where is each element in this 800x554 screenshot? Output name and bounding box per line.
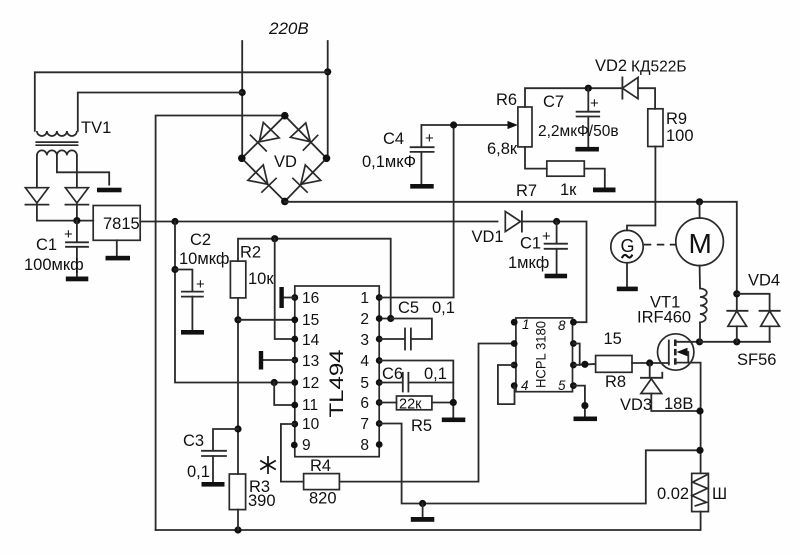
IC U2 HCPL 3180: [516, 318, 573, 392]
svg-text:220В: 220В: [268, 19, 309, 38]
resistor R2: [230, 261, 245, 298]
diode rectifier right: [65, 188, 88, 221]
wire bottom rail: [156, 529, 700, 531]
wire mains right vertical: [327, 41, 329, 158]
svg-text:0,1мкФ: 0,1мкФ: [362, 153, 416, 171]
ground G: [626, 263, 628, 287]
wire R2 top rail to pin2: [238, 239, 391, 319]
diode VD4 right: [737, 294, 780, 342]
node source branch: [696, 447, 703, 454]
wire diamond edges: [242, 116, 327, 202]
node HCPL pin7: [570, 340, 577, 347]
wire pin15: [238, 319, 295, 321]
ground HCPL pin5: [574, 417, 598, 422]
node bridge top: [281, 112, 289, 120]
svg-text:16: 16: [302, 290, 319, 307]
svg-text:VD: VD: [274, 153, 297, 171]
label asterisk: [260, 456, 276, 474]
node TL494 pin3: [376, 336, 383, 343]
svg-text:10: 10: [302, 416, 320, 433]
svg-text:TL494: TL494: [326, 349, 348, 417]
svg-text:13: 13: [302, 353, 319, 370]
node TL494 pin10: [291, 421, 298, 428]
wire secondary left terminal: [36, 155, 38, 187]
node TL494 pin12: [291, 379, 298, 386]
svg-text:C5: C5: [398, 299, 419, 317]
svg-text:R7: R7: [516, 182, 537, 200]
svg-text:VD2: VD2: [595, 57, 627, 75]
capacitor C1 100uF: [64, 221, 88, 282]
node TL494 pin14: [291, 336, 298, 343]
diode VD2: [622, 77, 655, 108]
svg-text:1мкф: 1мкф: [508, 254, 549, 272]
node HCPL pin8: [570, 319, 577, 326]
svg-text:HCPL 3180: HCPL 3180: [533, 321, 549, 388]
common bar pin13: [261, 351, 295, 370]
resistor R4: [304, 474, 340, 490]
node 22k right: [450, 399, 457, 406]
svg-text:9: 9: [302, 437, 311, 454]
capacitor C5: [379, 319, 432, 350]
node TL494 pin1: [376, 294, 383, 301]
wire VD1 cathode rail: [522, 222, 587, 323]
node TL494 pin7: [376, 420, 383, 427]
ground center tap: [97, 188, 122, 193]
wire R3 bottom: [237, 510, 239, 530]
node HCPL pin4: [511, 382, 518, 389]
node TL494 pin9: [291, 442, 298, 449]
svg-text:+: +: [425, 130, 434, 147]
node C7 top: [585, 85, 592, 92]
svg-text:КД522Б: КД522Б: [631, 59, 687, 76]
common bar pin16: [282, 287, 295, 308]
wire inductor to drain: [699, 322, 701, 341]
svg-text:11: 11: [302, 397, 318, 414]
potentiometer R6: [518, 107, 532, 147]
svg-text:R2: R2: [240, 244, 261, 262]
node C1 top: [553, 218, 560, 225]
node pin14 branch: [271, 235, 278, 242]
node TL494 pin11: [291, 402, 298, 409]
wire 7815 output rail: [140, 221, 497, 223]
wire HCPL pin7 jog to pin6: [573, 344, 579, 366]
svg-text:+: +: [196, 276, 205, 293]
ground 7815: [116, 240, 118, 256]
diode VD1: [505, 211, 522, 231]
diode bridge top-right: [303, 135, 318, 151]
wire HCPL pin5 ground: [573, 386, 585, 417]
node pin2 junction: [387, 315, 394, 322]
svg-text:SF56: SF56: [737, 351, 776, 369]
node motor top rail: [696, 198, 703, 205]
svg-text:R5: R5: [411, 417, 432, 435]
svg-text:C6: C6: [382, 365, 403, 383]
capacitor C6: [379, 373, 453, 392]
svg-text:100мкф: 100мкф: [24, 256, 84, 274]
wire dashed G-M coupling: [644, 244, 676, 246]
capacitor C1 1uF: [542, 222, 567, 279]
wire TV1 primary second: [78, 93, 242, 131]
wire R4 to HCPL pin2: [339, 344, 514, 482]
generator G: [611, 230, 643, 262]
node R8 left: [581, 361, 588, 368]
resistor R8: [596, 356, 632, 373]
node R3 bottom: [234, 526, 241, 533]
svg-text:10мкф: 10мкф: [179, 250, 230, 268]
svg-text:0,1: 0,1: [424, 365, 447, 383]
wire motor top: [699, 202, 701, 218]
svg-text:3: 3: [360, 332, 369, 349]
svg-text:5: 5: [558, 378, 566, 393]
wire pin4 to ground riser: [379, 361, 453, 418]
svg-text:15: 15: [604, 330, 622, 348]
svg-text:4: 4: [521, 378, 529, 393]
node pin12 jog: [271, 379, 278, 386]
svg-text:7: 7: [360, 416, 369, 433]
transistor VT1 IRF460: [658, 334, 701, 473]
capacitor C2: [175, 270, 205, 335]
node TL494 pin8: [376, 441, 383, 448]
svg-text:C4: C4: [383, 130, 404, 148]
wire pin7 ground rail: [379, 424, 700, 504]
svg-text:390: 390: [248, 492, 276, 510]
wire secondary right terminal: [76, 155, 78, 187]
wire R7 right ground: [584, 169, 605, 188]
wire pin1 to R6 wiper riser: [379, 125, 453, 298]
svg-text:18В: 18В: [664, 395, 693, 413]
node TL494 pin6: [376, 399, 383, 406]
wire HCPL pin3 to pin4 loop: [498, 365, 515, 404]
wire pin14 riser: [275, 239, 295, 339]
capacitor C4: [410, 125, 434, 189]
svg-text:С1: С1: [36, 236, 57, 254]
svg-text:2: 2: [360, 311, 369, 328]
svg-text:TV1: TV1: [81, 119, 111, 137]
svg-text:R4: R4: [310, 457, 331, 475]
bridge rectifier VD: [238, 112, 330, 205]
IC U1 TL494: [295, 286, 379, 457]
svg-text:15: 15: [302, 312, 319, 329]
svg-text:1: 1: [360, 290, 369, 307]
svg-text:VD1: VD1: [472, 228, 504, 246]
node HCPL pin2: [511, 340, 518, 347]
node mains left: [239, 89, 246, 96]
svg-text:+: +: [64, 226, 73, 243]
node R2-pin15: [234, 316, 241, 323]
node diode2 output: [73, 217, 80, 224]
svg-text:C2: C2: [190, 231, 211, 249]
node wiper junction: [450, 121, 457, 128]
diode bridge bottom-left: [261, 178, 276, 193]
regulator 7815: [93, 206, 140, 241]
diode bridge top-left: [250, 135, 267, 152]
pin numbers TL494 right: [360, 290, 369, 454]
svg-text:14: 14: [302, 332, 320, 349]
svg-text:C3: C3: [183, 432, 204, 450]
diode VD4 left: [727, 294, 747, 342]
wire motor to inductor: [699, 266, 701, 289]
wire rectifier output to 7815: [37, 220, 93, 222]
svg-text:С1: С1: [520, 235, 541, 253]
wire pin11 jog: [274, 383, 295, 406]
wire mains left vertical: [241, 41, 243, 158]
node VD4 top: [733, 290, 740, 297]
resistor R5 22k: [379, 396, 453, 413]
node mains right: [324, 68, 331, 75]
ground under 22k: [442, 418, 466, 423]
wire bridge top vertex to left border: [156, 116, 285, 531]
wire drain rail to VD4: [700, 341, 771, 343]
wire R6 bottom to R7: [525, 147, 547, 169]
wire R6 top: [525, 88, 622, 107]
svg-text:R8: R8: [605, 373, 626, 391]
node TL494 pin13: [291, 357, 298, 364]
wire secondary center tap: [57, 155, 109, 184]
svg-text:R9: R9: [666, 110, 687, 128]
zener VD3: [641, 363, 700, 411]
wire HCPL pin6 to R8: [573, 364, 595, 365]
svg-text:1к: 1к: [560, 181, 577, 199]
node pin5 ground: [581, 402, 588, 409]
wire TV1 primary top: [35, 72, 328, 131]
svg-text:R6: R6: [496, 91, 517, 109]
node ground rail: [419, 500, 426, 507]
shunt resistor: [692, 473, 709, 530]
svg-text:2,2мкФ/50в: 2,2мкФ/50в: [538, 123, 619, 140]
ground rail symbol: [422, 504, 424, 518]
resistor R3: [229, 474, 245, 510]
svg-text:VD3: VD3: [620, 396, 652, 414]
svg-text:6,8к: 6,8к: [487, 140, 518, 158]
node TL494 pin5: [376, 379, 383, 386]
ground R7: [593, 188, 616, 193]
motor M: [676, 218, 724, 266]
wire R2 bottom: [237, 298, 239, 474]
node bridge right: [323, 155, 331, 163]
resistor R9: [648, 109, 663, 147]
svg-text:100: 100: [666, 127, 694, 145]
svg-text:4: 4: [360, 353, 369, 370]
svg-text:1: 1: [522, 317, 530, 332]
svg-text:5: 5: [360, 375, 369, 392]
pin numbers TL494 left: [302, 290, 320, 454]
pin labels HCPL: [521, 317, 566, 393]
node HCPL pin6: [570, 362, 577, 369]
wire C4 wiper line: [421, 124, 508, 126]
svg-text:IRF460: IRF460: [637, 309, 691, 327]
svg-text:22к: 22к: [399, 397, 422, 413]
svg-text:0.02: 0.02: [657, 485, 689, 503]
wire motor rail from bridge: [285, 202, 737, 294]
diode bridge bottom-right: [292, 178, 307, 193]
svg-text:8: 8: [558, 318, 566, 333]
transformer TV1: [35, 131, 78, 155]
wire R8 to gate: [632, 362, 669, 364]
svg-text:6: 6: [360, 395, 369, 412]
node HCPL pin3: [511, 362, 518, 369]
wire TL494 vcc branch x175: [175, 222, 295, 383]
svg-text:G: G: [621, 236, 635, 256]
svg-text:VD4: VD4: [748, 272, 780, 290]
resistor R7: [547, 161, 585, 176]
node TL494 pin16: [291, 294, 298, 301]
svg-text:+: +: [590, 95, 599, 112]
inductor motor winding: [700, 289, 707, 323]
node bridge left: [238, 155, 246, 163]
node rail x175: [171, 218, 178, 225]
node TL494 pin4: [376, 357, 383, 364]
node C2 tap: [171, 266, 178, 273]
diode rectifier left: [25, 188, 48, 221]
node source VD3: [696, 407, 703, 414]
capacitor C3: [202, 429, 239, 487]
node HCPL pin5: [570, 382, 577, 389]
svg-text:0,1: 0,1: [187, 463, 210, 481]
svg-text:C7: C7: [543, 93, 564, 111]
node C3 tap: [234, 425, 241, 432]
node VD4 left bottom: [733, 338, 740, 345]
node gate VD3: [646, 359, 653, 366]
node bridge bottom: [281, 198, 289, 206]
capacitor C7: [575, 88, 599, 151]
wire pin10 to R4: [281, 424, 304, 482]
node TL494 pin15: [291, 316, 298, 323]
svg-text:+: +: [542, 228, 551, 245]
svg-text:M: M: [689, 228, 712, 259]
svg-text:7815: 7815: [103, 215, 140, 233]
svg-text:10к: 10к: [248, 270, 274, 288]
svg-text:0,1: 0,1: [432, 299, 455, 317]
svg-text:820: 820: [309, 490, 337, 508]
node drain: [696, 338, 703, 345]
arrow R6 wiper: [508, 121, 518, 129]
svg-text:8: 8: [360, 437, 369, 454]
node TL494 pin2: [376, 315, 383, 322]
node HCPL pin1: [511, 319, 518, 326]
svg-text:12: 12: [302, 375, 319, 392]
svg-text:Ш: Ш: [712, 485, 727, 503]
wire G to R9: [627, 147, 655, 231]
